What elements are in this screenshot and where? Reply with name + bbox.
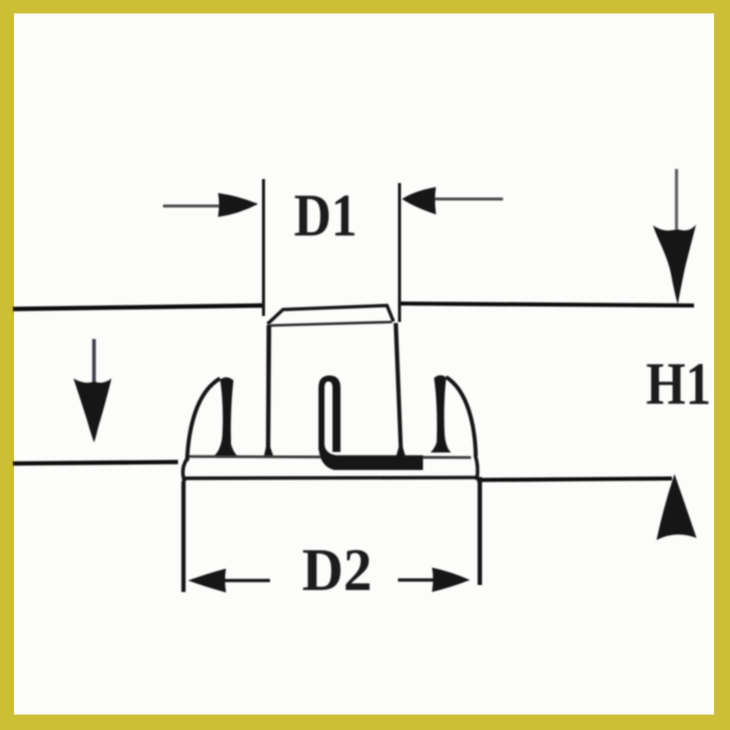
flange left end cap bbox=[183, 458, 188, 482]
H1 bottom arrowhead (pointing up) bbox=[657, 474, 697, 540]
D1 extension line left bbox=[262, 179, 265, 316]
yellow frame left bbox=[0, 0, 14, 730]
barrel left side bbox=[264, 325, 274, 457]
right prong inner edge (filled) bbox=[431, 375, 452, 452]
D1 extension line right bbox=[398, 183, 401, 322]
right prong outer arc bbox=[446, 377, 476, 456]
svg-text:D1: D1 bbox=[294, 183, 357, 249]
center prong bottom band bbox=[319, 444, 424, 470]
yellow frame bottom bbox=[0, 715, 730, 730]
H1 top arrow stem bbox=[675, 169, 678, 229]
barrel cap outline bbox=[268, 306, 394, 325]
flange right end cap bbox=[475, 455, 477, 480]
left prong inner edge (filled) bbox=[215, 377, 238, 455]
H1 top arrowhead (pointing down) bbox=[653, 225, 696, 305]
flange bottom line bbox=[182, 476, 477, 480]
svg-text:D2: D2 bbox=[302, 537, 372, 603]
center prong ring bbox=[319, 376, 341, 453]
flange top line bbox=[189, 457, 471, 458]
D2 arrow right (pointing right) bbox=[398, 578, 434, 581]
D2 arrow left (pointing left) bbox=[224, 579, 270, 582]
bottom reference line right segment bbox=[477, 479, 672, 481]
D1 arrow right (pointing left) bbox=[434, 198, 503, 201]
bottom reference line left segment bbox=[13, 462, 178, 464]
D2 extension line right bbox=[478, 477, 482, 585]
top reference line right segment bbox=[398, 304, 694, 306]
left prong outer arc bbox=[187, 379, 220, 462]
top reference line left segment bbox=[13, 306, 263, 310]
svg-text:H1: H1 bbox=[646, 351, 711, 417]
yellow frame right bbox=[714, 0, 730, 730]
left down arrowhead bbox=[74, 379, 112, 443]
barrel right side bbox=[394, 323, 406, 456]
D2 extension line left bbox=[181, 481, 185, 592]
left down arrow stem bbox=[92, 339, 96, 382]
D1 arrow left (pointing right) bbox=[163, 205, 222, 208]
barrel cap bottom edge bbox=[270, 322, 392, 326]
yellow frame top bbox=[0, 0, 730, 14]
